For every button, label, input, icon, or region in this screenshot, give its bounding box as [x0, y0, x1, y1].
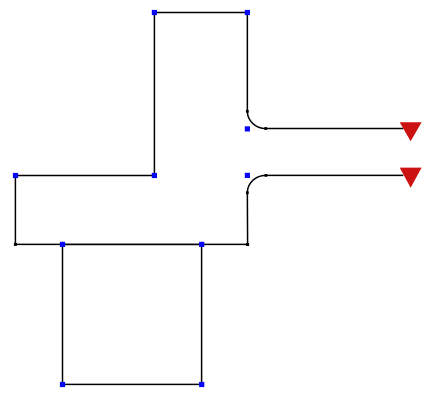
node handle mid far-left — [13, 173, 18, 178]
node handle square bottom-right — [199, 382, 204, 387]
node handle square top-right — [199, 242, 204, 247]
segment end dot: arc2 end — [265, 174, 268, 177]
node handle square bottom-left — [60, 382, 65, 387]
wire middle-left horizontal segment (y=175.5) — [15, 175, 154, 177]
node handle rounded corner 1 vertex — [245, 126, 250, 131]
segment end dot: arc1 end — [264, 127, 267, 130]
node handle top-left — [152, 10, 157, 15]
segment end dot: lower-right corner — [246, 243, 249, 246]
segment end dot: arc1 start — [246, 110, 249, 113]
node handle mid center — [152, 173, 157, 178]
node handle rounded corner 2 vertex — [245, 173, 250, 178]
rectangle shape (square) — [63, 244, 202, 384]
arrowhead 2 (red triangle, points down) — [400, 168, 422, 188]
wire horizontal to arrow 2 (y=175.4) — [266, 174, 403, 176]
wire far-left vertical segment (x=15.4) — [14, 176, 16, 245]
wire left vertical segment (x=154) — [153, 13, 155, 176]
wire top horizontal segment — [154, 12, 247, 14]
rounded corner arc 1 — [247, 111, 265, 128]
segment end dot: lower-left corner — [14, 243, 17, 246]
wire vertical into rounded corner 1 (x=247.35) — [246, 13, 248, 112]
arrowhead 1 (red triangle, points down) — [400, 122, 422, 141]
wire horizontal to arrow 1 (y=128.5) — [266, 128, 404, 130]
segment end dot: arc2 start — [246, 191, 249, 194]
node handle square top-left — [60, 242, 65, 247]
node handle top-right — [245, 10, 250, 15]
wire vertical into rounded corner 2 (x=247.35) — [246, 193, 248, 245]
wire lower long horizontal segment (y=244.4) — [15, 243, 247, 245]
rounded corner arc 2 — [247, 175, 266, 192]
